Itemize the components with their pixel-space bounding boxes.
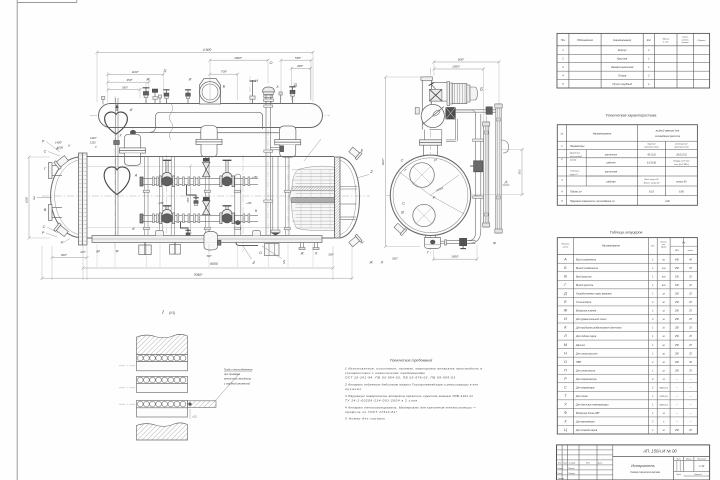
svg-text:Р: Р (42, 231, 45, 235)
dimension 6000 bottom (81, 266, 334, 269)
svg-text:Кол: Кол (647, 39, 652, 42)
svg-text:ТУ 24-2-00209-234-001-2004 в: ТУ 24-2-00209-234-001-2004 в 2 слоя (345, 399, 417, 403)
technical characteristics table (557, 125, 697, 206)
end view nozzle projection circle lower (413, 204, 435, 226)
parts list table (557, 33, 710, 88)
bell connector nozzle left (120, 134, 146, 165)
svg-text:Датчик: Датчик (575, 344, 586, 347)
leader line position 2 (357, 175, 369, 179)
svg-text:Р: Р (42, 140, 45, 144)
svg-text:С: С (401, 159, 404, 163)
svg-text:1 шт: 1 шт (663, 42, 669, 44)
svg-text:Ф: Ф (564, 411, 567, 415)
end view circle labels (401, 159, 496, 255)
svg-text:Пучок трубный: Пучок трубный (612, 82, 632, 86)
nozzle В left lower with flange (49, 205, 63, 221)
main shell body (87, 157, 334, 239)
stub from front pipe to right bell (270, 146, 283, 152)
svg-text:С: С (44, 150, 47, 154)
svg-text:зачистить заподлицо: зачистить заподлицо (223, 377, 252, 381)
position leader 4 (243, 246, 255, 265)
labels on drum top nozzles (130, 61, 298, 231)
svg-text:Отработанные пары аммиака: Отработанные пары аммиака (576, 293, 612, 296)
svg-text:6,0 (0,6): 6,0 (0,6) (647, 162, 656, 165)
svg-text:О: О (259, 251, 262, 255)
detail plate bar 1 (137, 362, 188, 371)
svg-text:4 600: 4 600 (203, 48, 212, 52)
vertical riser pipe right capped column (235, 174, 241, 235)
svg-text:АП. 150А.И № 00: АП. 150А.И № 00 (642, 448, 677, 453)
svg-text:М: М (564, 343, 567, 347)
svg-text:Таблица штуцеров: Таблица штуцеров (610, 231, 643, 235)
svg-text:Разраб.: Разраб. (558, 468, 565, 470)
svg-text:250: 250 (674, 311, 680, 313)
svg-text:Для манометра: Для манометра (575, 421, 595, 424)
svg-text:250: 250 (674, 370, 680, 372)
left vertical dimension 1600 (25, 155, 51, 239)
vertical riser pipe left (145, 157, 148, 235)
detail leader line to note (214, 374, 239, 402)
lower manifold valve 3 (220, 206, 234, 224)
svg-text:250: 250 (674, 268, 680, 270)
svg-text:Листов 1: Листов 1 (693, 474, 702, 476)
svg-text:П: П (564, 368, 567, 372)
lower riser X-valve (203, 197, 211, 214)
anchor block below beam (139, 242, 151, 254)
dimension А vertical right (472, 148, 524, 196)
leader line position 1 (304, 139, 321, 161)
svg-text:Для термопары: Для термопары (575, 386, 595, 389)
svg-text:1060*: 1060* (234, 56, 243, 60)
level gauge column 2 (495, 104, 502, 233)
svg-text:Слив воздуха: Слив воздуха (576, 301, 592, 304)
end view vertical centerline (430, 68, 432, 256)
svg-text:Наименование: Наименование (593, 132, 612, 136)
svg-text:8,15: 8,15 (649, 190, 654, 193)
end view bottom dimension 1000 (432, 245, 479, 261)
svg-text:500*: 500* (207, 255, 212, 258)
labels near right head (361, 149, 384, 265)
tube bundle broken-out section hatch (290, 166, 335, 231)
svg-text:расчетное: расчетное (604, 153, 618, 156)
svg-text:Ж: Ж (563, 309, 568, 313)
end view top dimension 600 (432, 58, 500, 64)
svg-text:В: В (401, 211, 404, 215)
svg-text:6000: 6000 (210, 262, 218, 266)
level gauge column 1 (483, 116, 490, 227)
svg-text:Схема технологическая: Схема технологическая (630, 470, 660, 474)
svg-text:550*: 550* (295, 56, 302, 60)
upper separator drum (98, 104, 322, 128)
dimension 1060 top (208, 59, 269, 62)
svg-text:Н: Н (61, 241, 64, 245)
svg-text:1100*: 1100* (131, 70, 139, 74)
svg-text:6,90: 6,90 (679, 190, 684, 193)
svg-text:1050*: 1050* (452, 65, 461, 69)
valve on bottom pipe (460, 238, 467, 248)
label А section (503, 180, 510, 186)
svg-text:1400*: 1400* (55, 141, 63, 145)
svg-text:Петров: Петров (569, 473, 575, 475)
svg-text:Выход: минус 33: Выход: минус 33 (644, 181, 660, 184)
svg-text:В: В (44, 208, 47, 212)
downcomer pipe through drum and shell (114, 98, 120, 236)
vertical riser pipe far right (286, 157, 289, 235)
vertical riser pipe left-b (159, 157, 163, 235)
detail bottom hatched block (137, 423, 188, 440)
svg-text:5 Номер без справки: 5 Номер без справки (345, 417, 385, 421)
svg-text:П20х1,5: П20х1,5 (660, 396, 669, 398)
svg-text:Камера выносная: Камера выносная (611, 65, 634, 69)
labels on left nozzles (42, 140, 119, 254)
end view bottom horizontal pipe (447, 241, 476, 244)
dimension 340 top (290, 67, 312, 70)
heart shaped float device in shell (104, 167, 130, 195)
svg-text:межтрубное: межтрубное (675, 144, 688, 146)
bottom labels О Ж Л (207, 251, 335, 258)
svg-text:Крышка: Крышка (617, 57, 628, 61)
actuator ribbed barrel (452, 84, 467, 104)
svg-text:2 Аппарат подлежит действию п: 2 Аппарат подлежит действию правил Госго… (344, 383, 478, 387)
base lug right (253, 231, 261, 236)
svg-text:М20х1,5: М20х1,5 (660, 405, 669, 407)
svg-text:охлаждения рассола: охлаждения рассола (655, 134, 681, 138)
detail plate bar 2 (137, 383, 188, 392)
svg-text:250: 250 (674, 302, 680, 304)
bell connector nozzle right (275, 126, 301, 157)
svg-text:Ж: Ж (368, 261, 373, 265)
position leader 3 (33, 196, 52, 201)
svg-text:500: 500 (517, 169, 521, 174)
drum top small nozzle Х (279, 92, 282, 104)
under-beam stub Ж (299, 242, 305, 249)
end view drain sump box (425, 236, 441, 249)
svg-text:Масса: Масса (686, 459, 692, 461)
svg-text:+150: +150 (246, 202, 252, 205)
svg-text:Наружная поверхность теплообме: Наружная поверхность теплообмена, м² (570, 200, 615, 203)
svg-text:трубное: трубное (647, 144, 656, 146)
dimension extension lines top (97, 51, 313, 102)
under-beam stub Л (313, 242, 319, 249)
drum top mushroom vent О (263, 87, 275, 104)
svg-text:Для слива рассола: Для слива рассола (575, 352, 598, 355)
svg-text:Воздушка блока АВТ: Воздушка блока АВТ (576, 412, 600, 415)
heart shaped float device in drum (105, 112, 128, 134)
dimension 4600 over drum (95, 51, 314, 54)
svg-text:700*: 700* (221, 70, 228, 74)
lower manifold pipe К (140, 214, 258, 223)
svg-text:А: А (134, 174, 138, 178)
svg-text:Ф: Ф (493, 242, 496, 246)
right dished head (341, 157, 360, 238)
svg-text:пространство: пространство (674, 147, 689, 149)
svg-text:С: С (564, 385, 567, 389)
centerline shell axis (42, 195, 370, 197)
lower manifold spool flanges (153, 214, 250, 223)
drum top valve Д (289, 87, 295, 104)
end view vertical pipe (422, 102, 442, 140)
svg-text:Х: Х (275, 85, 279, 89)
elbow horizontal run (432, 83, 449, 102)
svg-text:Вакуум -0,75 мм/: Вакуум -0,75 мм/ (674, 161, 690, 163)
svg-text:Для термометра: Для термометра (575, 378, 597, 381)
svg-text:Лит.: Лит. (675, 459, 681, 461)
svg-text:340*: 340* (297, 64, 304, 68)
svg-text:Иванов: Иванов (569, 468, 575, 470)
inner vertical dimension 1500 (188, 164, 192, 235)
svg-text:Наименование: Наименование (602, 244, 620, 248)
svg-text:при приварке: при приварке (224, 373, 241, 376)
upper manifold valve 1 (159, 160, 174, 186)
svg-text:Для слива масла: Для слива масла (575, 369, 596, 372)
svg-text:Вход рассола: Вход рассола (576, 275, 592, 278)
svg-text:≈1,5: ≈1,5 (192, 416, 197, 419)
svg-text:1400*: 1400* (90, 137, 98, 140)
end view nozzle projection circle upper (410, 163, 435, 188)
end view shell circle (390, 155, 470, 235)
svg-text:Б: Б (480, 87, 483, 92)
svg-text:250: 250 (674, 345, 680, 347)
right tube sheet hatched (335, 157, 341, 238)
svg-text:Для уравнительной линии: Для уравнительной линии (575, 318, 607, 321)
svg-text:О: О (270, 61, 273, 65)
riser bottom elbow (468, 228, 481, 243)
top elbow cap (421, 77, 433, 80)
svg-text:Д: Д (293, 83, 297, 87)
drum top valve М (185, 90, 191, 104)
svg-text:40 (1,6): 40 (1,6) (647, 153, 655, 156)
detail tube row 1 (137, 355, 188, 362)
svg-text:Р: Р (433, 196, 436, 200)
svg-text:+150: +150 (158, 202, 164, 205)
base lug left (156, 231, 164, 236)
svg-text:550*: 550* (122, 85, 129, 89)
drum top stem valve at 155 (152, 89, 157, 104)
end view radial dimension lines (398, 171, 464, 214)
top elbow (422, 77, 431, 102)
drum top valve Ж (143, 88, 150, 104)
svg-text:И: И (564, 317, 567, 321)
gauge hook pipe (501, 140, 508, 153)
svg-text:Технические требования: Технические требования (390, 359, 433, 363)
riser mid flanges (143, 190, 290, 229)
svg-text:Ц: Ц (164, 69, 167, 73)
bottom left dimensions 600 300 (50, 251, 88, 259)
svg-text:Примеч: Примеч (698, 40, 707, 42)
svg-text:+150: +150 (252, 176, 258, 179)
svg-text:с трубной решеткой: с трубной решеткой (224, 381, 251, 385)
svg-text:Масса: Масса (663, 39, 670, 41)
upper manifold valve 3 (220, 160, 234, 186)
svg-text:И: И (189, 78, 192, 82)
detail note text (223, 368, 253, 386)
right head partition chord upper (341, 187, 358, 190)
detail plate bar 3 (137, 408, 188, 417)
svg-text:О: О (564, 360, 567, 364)
svg-text:1 Изготовление, испытание, пр: 1 Изготовление, испытание, приемку, марк… (345, 367, 482, 371)
drum internal piping with ball joints (130, 112, 290, 135)
title block (557, 445, 710, 480)
svg-text:Для отвода паров: Для отвода паров (575, 429, 598, 432)
svg-text:Для датчика температуры: Для датчика температуры (575, 404, 609, 407)
central drain pan О (204, 231, 221, 250)
drum break squiggle line (169, 104, 173, 140)
svg-text:А: А (563, 257, 567, 261)
tall front pipe with top flange (264, 95, 273, 235)
upper manifold spool flanges (153, 177, 250, 186)
downcomer top arrow (115, 104, 118, 111)
small dim +150 labels (158, 176, 258, 205)
leader lines left nozzles (46, 142, 70, 243)
svg-text:завод-: завод- (681, 36, 688, 39)
left elliptical head (51, 157, 79, 238)
svg-text:жидкий аммиак для: жидкий аммиак для (655, 129, 680, 133)
lower manifold drop leg valve (185, 230, 190, 237)
end view top nozzle neck (420, 140, 442, 156)
bell connector nozzle middle (196, 126, 222, 157)
upper manifold drop leg (187, 185, 197, 199)
base elbow pipe right (236, 242, 258, 245)
svg-text:7050*: 7050* (194, 273, 204, 277)
svg-text:Для слива: Для слива (575, 395, 588, 398)
svg-text:тура, С: тура, С (570, 174, 579, 176)
svg-text:Вход: минус 31: Вход: минус 31 (645, 178, 659, 181)
svg-text:Н: Н (564, 351, 567, 355)
base support beam (92, 236, 322, 243)
svg-text:1600*: 1600* (381, 157, 385, 165)
svg-text:250: 250 (674, 336, 680, 338)
lower manifold valve 1 (159, 206, 174, 224)
svg-text:950*: 950* (127, 78, 134, 82)
svg-text:250: 250 (674, 294, 680, 296)
pipe to level gauges (456, 110, 497, 112)
detail top hatched block (137, 334, 188, 354)
svg-text:ОСТ 26-291-94, ПБ 03-584-03, П: ОСТ 26-291-94, ПБ 03-584-03, ПБ 03-576-0… (345, 376, 455, 380)
svg-text:М20х1,5: М20х1,5 (660, 387, 669, 389)
sump side nozzle tick (441, 240, 447, 245)
right head partition chord middle (341, 203, 357, 205)
svg-text:3 Наружную поверхность аппара: 3 Наружную поверхность аппарата окрасить… (345, 394, 473, 398)
svg-text:Для приборов срабатывания датч: Для приборов срабатывания датчиков (575, 327, 622, 330)
svg-text:600*: 600* (61, 253, 68, 257)
svg-text:изгото-: изгото- (681, 39, 689, 41)
svg-text:Лист: Лист (562, 463, 568, 465)
tube bundle baffle lines (301, 170, 330, 228)
detail centerlines (119, 366, 136, 404)
nozzle Г left upper with flange (49, 163, 63, 179)
top-left corner stamp box (17, 0, 77, 3)
dimension 7050 bottom (40, 277, 353, 280)
end view horizontal centerline (386, 194, 480, 196)
svg-text:С: С (43, 225, 46, 229)
svg-text:рабочее: рабочее (605, 162, 616, 165)
right riser pipe of end view (456, 110, 484, 228)
actuator end cap (467, 85, 478, 102)
end view lower-left diagonal stub (393, 222, 406, 235)
left top dimension cluster (106, 70, 165, 102)
vertical centerlines of nozzles (115, 76, 294, 252)
svg-text:изб, кгс/см²: изб, кгс/см² (570, 155, 582, 158)
diagonal nozzle С lower-left (54, 223, 69, 238)
svg-text:нищ. (0,07 МПа): нищ. (0,07 МПа) (674, 164, 689, 166)
lower manifold drop leg (181, 222, 189, 233)
svg-text:Dу,мм: Dу,мм (661, 247, 667, 249)
detail view title I (162, 310, 175, 316)
svg-text:рабочая: рабочая (605, 180, 616, 183)
svg-text:Ц: Ц (564, 428, 567, 432)
svg-text:Воздушка нижняя: Воздушка нижняя (576, 310, 597, 313)
technical requirements text (344, 367, 482, 421)
bypass pipe from solenoid down (446, 119, 458, 141)
vertical riser pipe left-c (171, 157, 174, 235)
svg-text:НВП: НВП (576, 361, 581, 364)
position leader 5 (262, 246, 286, 265)
drum top nozzle И with stem (250, 80, 256, 104)
svg-text:Объем, м³: Объем, м³ (570, 190, 582, 193)
svg-text:Испаритель: Испаритель (631, 463, 655, 468)
left head dimension labels (55, 137, 98, 150)
svg-text:Техническая характеристика: Техническая характеристика (606, 114, 657, 118)
diagonal nozzle Е right top (348, 146, 362, 159)
diagonal nozzle Е upper-left (54, 155, 69, 170)
sheet left border line (16, 0, 18, 480)
svg-text:пространство: пространство (644, 147, 659, 149)
svg-text:минус 40: минус 40 (676, 180, 687, 183)
svg-text:(У1): (У1) (169, 311, 175, 315)
svg-text:Д: Д (563, 292, 567, 296)
svg-text:1:10: 1:10 (699, 464, 705, 468)
anchor block below beam 2 (170, 242, 181, 254)
svg-text:профиль по ГОСТ 17314-81*: профиль по ГОСТ 17314-81* (345, 410, 398, 414)
right head partition chord lower (341, 217, 357, 220)
upper manifold drop leg valve (193, 198, 198, 206)
detail small dimension (190, 409, 197, 419)
svg-text:А: А (503, 180, 507, 185)
svg-text:Пров.: Пров. (558, 473, 563, 475)
base center block (265, 244, 280, 256)
svg-text:Ф: Ф (115, 250, 118, 254)
svg-text:Лист: Лист (675, 474, 681, 476)
svg-text:Дата: Дата (597, 463, 602, 465)
svg-text:расчетная: расчетная (604, 170, 618, 173)
nozzle table (557, 238, 697, 434)
small valve on gauge pipe (486, 107, 492, 115)
detail tube row 3 with side plate (137, 400, 217, 407)
svg-text:1000*: 1000* (451, 254, 459, 258)
end view top extension lines (434, 61, 499, 123)
svg-text:4 Аппарат теплоизолировать.: 4 Аппарат теплоизолировать. Материалы дл… (345, 406, 477, 410)
svg-text:органах: органах (345, 387, 361, 391)
svg-text:Л: Л (380, 261, 384, 265)
svg-text:И: И (255, 79, 258, 83)
svg-text:чение: чение (562, 247, 569, 249)
svg-text:С: С (402, 202, 405, 206)
svg-text:Опора: Опора (618, 74, 627, 78)
detail tube row 2 (137, 376, 188, 383)
svg-text:витель: витель (682, 42, 689, 44)
end view top dimension 1050 (432, 65, 485, 71)
svg-text:Ж: Ж (145, 78, 150, 82)
svg-text:Выход хладагента: Выход хладагента (576, 267, 599, 270)
drum top valve У (163, 90, 169, 104)
svg-text:Обозначение: Обозначение (577, 38, 593, 42)
bottom extension lines (42, 244, 352, 280)
svg-text:300*: 300* (328, 253, 334, 257)
svg-text:Л: Л (563, 334, 567, 338)
drum top small nozzle Ц (158, 95, 161, 104)
end view left vertical dimension (381, 75, 424, 248)
svg-text:Х: Х (563, 420, 567, 424)
